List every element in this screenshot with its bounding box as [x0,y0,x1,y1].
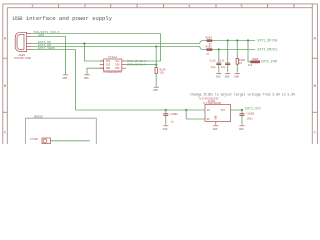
node C1UB0 tap [165,109,167,111]
node EN tap [185,109,187,111]
svg-text:5V0/EXT1_5V0-5: 5V0/EXT1_5V0-5 [34,30,60,34]
wire 5V0 drop to IC pin1 right [126,34,161,62]
node cap C110 tap on DM line [218,48,220,50]
svg-text:C1UB0: C1UB0 [170,113,178,116]
regulator IC1B1 [205,105,231,125]
frame row letters [4,38,317,136]
svg-text:R1B4: R1B4 [206,37,213,40]
svg-text:GND: GND [39,33,45,37]
ground under C1UB0 [163,126,169,131]
svg-text:R1B5: R1B5 [252,58,259,61]
svg-text:C111: C111 [218,59,225,62]
svg-text:GND: GND [84,77,89,80]
wire C1UB5 to gnd [241,116,243,125]
frame column numbers [31,5,295,9]
wire IC pin3 to ground [87,68,104,74]
node on DP net [83,42,85,44]
svg-text:TPD4E004DRYR: TPD4E004DRYR [103,71,122,74]
svg-text:GND: GND [213,128,218,131]
frame side row dividers [3,58,318,112]
wire EXT1_DP net [31,41,207,44]
svg-text:GND: GND [163,128,168,131]
svg-text:TP1B1: TP1B1 [30,138,38,141]
svg-text:GND: GND [215,115,218,120]
svg-text:GND: GND [63,77,68,80]
ground under C1UB5 [239,126,245,131]
svg-text:C1UB5: C1UB5 [246,113,254,116]
esd ic IC1A2 [100,59,126,71]
node on DM net [155,45,157,47]
wire DP tap to IC pin1 left [85,44,104,62]
IC1A2 pin names [106,60,120,70]
svg-text:R1B3: R1B3 [206,46,213,49]
svg-text:EXT1_DP/D0: EXT1_DP/D0 [258,38,278,42]
wire EXT1_DM net [31,47,207,50]
svg-text:GND: GND [106,67,111,70]
node cap C111 tap on DP line [227,39,229,41]
ground under x156 [153,87,159,92]
svg-text:IO1: IO1 [106,60,111,63]
wire main 5V rail to regulator [76,109,206,111]
svg-text:IC1A2: IC1A2 [108,56,117,59]
wire R1B6 to gnd [236,64,238,72]
wire to C110 [218,50,220,63]
svg-text:DEBUG: DEBUG [34,116,43,119]
svg-text:IO3: IO3 [115,67,120,70]
svg-text:EXT1_DP/D0-5: EXT1_DP/D0-5 [127,59,146,63]
ground under C110 [216,74,222,79]
resistor R1B5 pull-up [248,58,260,67]
svg-text:1M: 1M [239,62,243,65]
wire EN jog [186,110,205,119]
svg-text:VCC: VCC [115,60,120,63]
wire to C1UB0 [165,110,167,113]
svg-text:EXT1_VCC: EXT1_VCC [245,106,261,110]
svg-text:GND: GND [216,76,221,79]
wire EXT1_VBUS net [31,50,76,111]
node C1UB5 tap [241,109,243,111]
test point TP1B1 pad [42,138,50,144]
resistor R1A5 pulldown [155,68,166,75]
resistor R1B4 series DP [206,37,213,47]
ground under x87 [84,75,90,80]
node PUR tap on DP line [247,39,249,41]
wire IC pin2 right [126,64,156,66]
capacitor C110 [216,63,221,65]
svg-text:IO2: IO2 [106,64,111,67]
svg-text:MICRO-USB: MICRO-USB [15,57,31,60]
svg-text:1u: 1u [171,121,175,124]
resistor R1B3 series DM [206,46,213,56]
wire DM after resistor [212,49,255,51]
svg-text:TLV70033DCKR: TLV70033DCKR [203,102,222,105]
svg-text:EXT1_DM/D1-5: EXT1_DM/D1-5 [127,62,146,66]
svg-text:GND: GND [234,76,239,79]
wire C1UB0 to gnd [165,116,167,125]
svg-text:27: 27 [206,53,210,56]
wire resistor to gnd [155,74,157,87]
IC1B1 pin names [207,109,226,121]
svg-text:OUT: OUT [221,109,226,112]
capacitor C1UB5 [240,113,245,116]
wire DM tap down [155,47,157,68]
frame top column dividers [59,4,268,8]
svg-text:IO4: IO4 [115,64,120,67]
connector J1B2 micro-usb body [15,32,31,51]
wire C111 to gnd [227,65,229,73]
svg-text:1k5: 1k5 [248,63,253,67]
frame left band [3,4,8,144]
resistor R1B6 [236,58,245,65]
wire C110 to gnd [218,65,220,73]
svg-text:100n: 100n [246,118,253,121]
svg-text:EXT1_VBUS: EXT1_VBUS [38,46,55,50]
ground under IC1B1 [213,126,219,131]
wire from test point [50,140,90,142]
wire down to R1B5 [248,41,251,62]
svg-text:GND: GND [153,89,158,92]
wire 5V0 net [31,33,161,35]
frame right band [312,4,317,144]
svg-text:USB interface and power supply: USB interface and power supply [13,15,113,22]
frame horizontal band [3,4,318,8]
svg-text:EXT1_DM/D1: EXT1_DM/D1 [258,47,278,51]
ground under R1B6 [234,74,240,79]
svg-text:GND: GND [239,128,244,131]
svg-text:18p: 18p [221,66,226,69]
node R1B6 tap on DP line [236,39,238,41]
svg-text:EXT1_PUR: EXT1_PUR [261,60,277,64]
svg-text:Change IC1B1 to adjust target: Change IC1B1 to adjust target voltage fr… [190,93,295,97]
wire OUT net [231,109,243,111]
wire DP after resistor [212,40,255,42]
wire to C111 crossing DM line [227,41,229,63]
node junction IC pin2 wire [155,64,157,66]
capacitor C111 [225,63,230,65]
svg-text:GND: GND [225,76,230,79]
ground under x65 [63,75,69,80]
svg-text:C110: C110 [209,59,216,62]
svg-text:18p: 18p [211,66,216,69]
debug group box [26,118,97,144]
wire to C1UB5 [241,110,243,113]
wire to R1B6 crossing DM line [236,41,238,59]
ground under C111 [225,74,231,79]
svg-text:15k: 15k [160,71,165,75]
wire GND stub [31,37,66,75]
capacitor C1UB0 [163,113,168,116]
